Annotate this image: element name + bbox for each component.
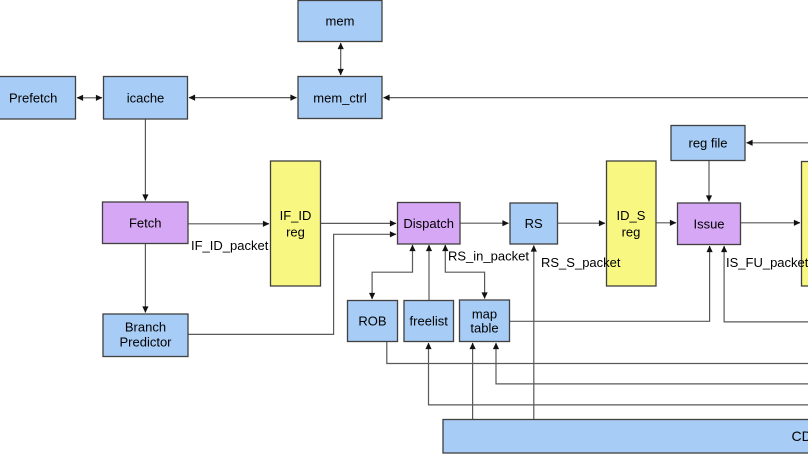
- wire: Fetch to Branch Predictor: [144, 244, 146, 313]
- wire: Fetch to IF_ID reg: [189, 223, 270, 225]
- wire: ID_S reg to Issue: [657, 222, 677, 224]
- svg-text:mem_ctrl: mem_ctrl: [313, 90, 367, 105]
- wire: Dispatch to ROB (bidirectional): [372, 245, 412, 299]
- svg-text:RS_S_packet: RS_S_packet: [541, 255, 621, 270]
- wire: right edge to reg file: [747, 142, 808, 144]
- pipeline register FU reg (clipped at right edge): [802, 162, 808, 287]
- wire: right edge to map table: [496, 343, 808, 384]
- svg-text:reg: reg: [622, 225, 641, 240]
- svg-text:reg file: reg file: [688, 136, 727, 151]
- wire: RS to ID_S reg: [558, 222, 605, 224]
- svg-text:Predictor: Predictor: [119, 335, 172, 350]
- svg-text:CDB: CDB: [792, 428, 808, 444]
- svg-text:Branch: Branch: [125, 320, 166, 335]
- svg-text:RS_in_packet: RS_in_packet: [448, 249, 529, 264]
- wire: freelist to Dispatch: [428, 245, 430, 300]
- svg-text:IS_FU_packet: IS_FU_packet: [726, 255, 808, 270]
- block Prefetch: [0, 77, 76, 120]
- wire: ROB to right edge: [387, 342, 808, 364]
- block mem: [298, 1, 382, 42]
- wire: icache to Fetch: [144, 119, 146, 201]
- wire: map table to Issue: [510, 246, 710, 321]
- block reg file: [671, 126, 745, 161]
- svg-text:Fetch: Fetch: [129, 216, 162, 231]
- block icache: [104, 77, 188, 120]
- wire: reg file to Issue: [708, 161, 710, 202]
- wire: right edge to Issue: [724, 246, 808, 322]
- wire: Dispatch to map table (bidirectional): [445, 245, 484, 299]
- svg-text:map: map: [472, 306, 497, 321]
- block map table: [460, 300, 510, 342]
- block Dispatch: [398, 203, 461, 245]
- wire: CDB to map table: [472, 343, 474, 419]
- svg-text:freelist: freelist: [410, 314, 449, 329]
- svg-text:reg: reg: [286, 225, 305, 240]
- block RS: [510, 203, 558, 244]
- block Branch Predictor: [103, 314, 188, 357]
- svg-text:IF_ID: IF_ID: [280, 208, 312, 223]
- pipeline register IF_ID reg: [271, 161, 321, 286]
- svg-text:icache: icache: [127, 90, 165, 105]
- wire: IF_ID reg to Dispatch: [321, 222, 396, 224]
- wire: icache to mem_ctrl (bidirectional): [189, 97, 297, 99]
- svg-text:mem: mem: [326, 14, 355, 29]
- svg-text:ROB: ROB: [358, 314, 386, 329]
- wire: Prefetch to icache (bidirectional): [77, 97, 102, 99]
- bus CDB (clipped at right edge): [443, 420, 808, 454]
- svg-text:IF_ID_packet: IF_ID_packet: [191, 238, 269, 253]
- block mem_ctrl: [298, 77, 382, 119]
- wire: right edge to mem_ctrl: [384, 97, 808, 99]
- block Issue: [678, 203, 741, 245]
- wire: Branch Predictor to Dispatch: [189, 234, 397, 334]
- svg-text:table: table: [470, 321, 498, 336]
- pipeline register ID_S reg: [607, 161, 657, 286]
- wire: right edge to freelist: [429, 343, 808, 405]
- block ROB: [348, 301, 398, 342]
- svg-text:ID_S: ID_S: [617, 208, 646, 223]
- svg-text:Prefetch: Prefetch: [9, 90, 57, 105]
- wire: Dispatch to RS: [461, 222, 509, 224]
- block Fetch: [103, 202, 189, 244]
- wire: CDB to RS: [533, 246, 535, 420]
- svg-text:RS: RS: [525, 216, 543, 231]
- svg-text:Dispatch: Dispatch: [403, 216, 454, 231]
- wire: Issue to FU reg: [741, 222, 800, 224]
- svg-text:Issue: Issue: [693, 216, 724, 231]
- wire: mem to mem_ctrl (bidirectional): [340, 43, 342, 75]
- block freelist: [404, 301, 454, 342]
